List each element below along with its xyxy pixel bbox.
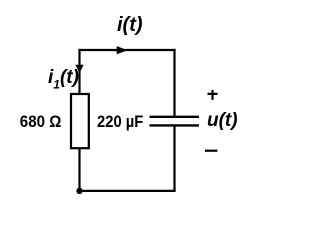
svg-text:680 Ω: 680 Ω [20,112,62,131]
wire bottom [78,190,175,192]
wire left vertical lower [78,148,80,191]
junction node dot [76,188,82,194]
svg-text:220 µF: 220 µF [97,113,144,131]
capacitor C top plate [150,116,200,118]
svg-text:i1(t): i1(t) [48,67,79,91]
svg-text:i(t): i(t) [117,14,143,36]
arrowhead current i1(t) on left branch [76,65,83,72]
wire top [78,49,175,51]
polarity plus sign [208,90,218,100]
polarity minus sign [205,150,217,152]
wire right vertical upper [173,49,175,116]
wire left vertical upper [78,49,80,94]
wire right vertical lower [173,126,175,191]
arrowhead current i(t) on top wire [117,47,126,54]
resistor R 680 ohm body [71,94,89,148]
svg-text:u(t): u(t) [207,110,238,131]
capacitor C bottom plate [150,124,200,126]
